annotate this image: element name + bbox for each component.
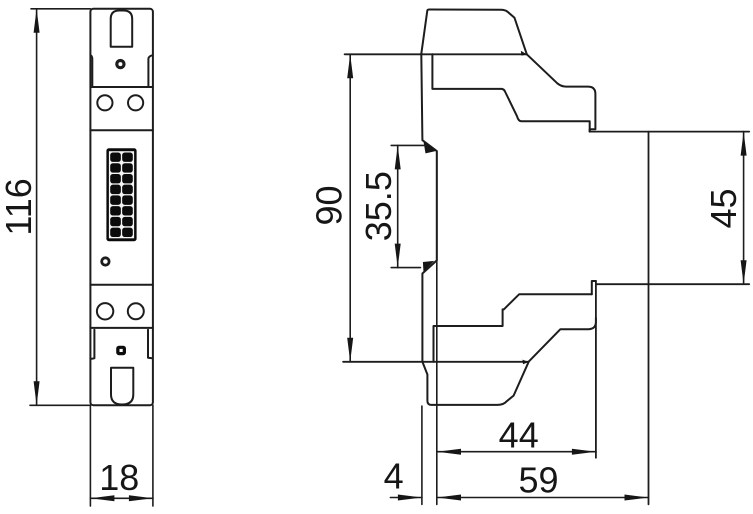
svg-text:59: 59 [518,459,558,500]
svg-text:116: 116 [0,178,39,235]
svg-text:18: 18 [99,457,139,498]
svg-text:45: 45 [703,188,744,228]
svg-text:44: 44 [499,415,539,456]
svg-text:90: 90 [309,185,350,225]
svg-text:35.5: 35.5 [358,171,399,241]
svg-text:4: 4 [384,455,404,496]
